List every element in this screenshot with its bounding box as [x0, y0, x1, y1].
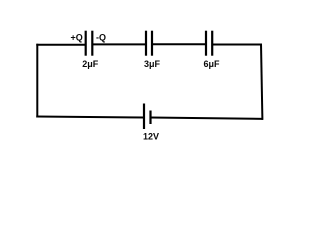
- svg-text:6μF: 6μF: [204, 59, 221, 69]
- wire: top side, left segment (top-left corner to C1): [36, 44, 86, 46]
- wire: bottom side, right segment (battery to bottom-right corner): [151, 118, 263, 119]
- wire: left side vertical: [36, 44, 38, 118]
- capacitor C2 (3uF) plates: [146, 31, 152, 56]
- svg-text:12V: 12V: [143, 131, 159, 141]
- wire: top side, segment C3 to top-right corner: [212, 44, 262, 46]
- wire: top side, segment between C1 and C2: [92, 43, 146, 45]
- svg-text:3μF: 3μF: [144, 59, 161, 69]
- capacitor C3 (6uF) plates: [206, 31, 212, 56]
- wire: top side, segment between C2 and C3: [152, 43, 206, 45]
- svg-text:+Q: +Q: [71, 32, 83, 42]
- svg-text:-Q: -Q: [96, 32, 106, 42]
- svg-text:2μF: 2μF: [82, 59, 99, 69]
- battery B1 short plate (negative): [149, 111, 151, 125]
- wire: bottom side, left segment (bottom-left corner to battery): [36, 117, 144, 118]
- capacitor C1 (2uF) plates: [86, 31, 93, 56]
- battery B1 long plate (positive): [143, 104, 145, 130]
- wire: right side vertical: [261, 44, 262, 120]
